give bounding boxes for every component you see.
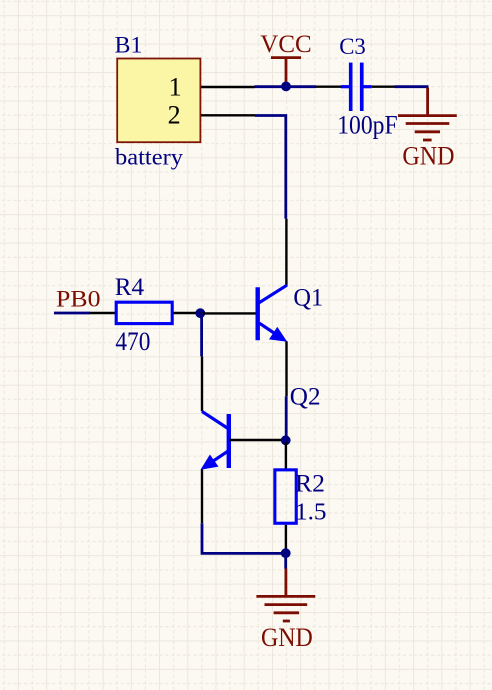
svg-text:470: 470	[115, 327, 150, 356]
wire pin2 down to Q1 collector	[255, 116, 286, 219]
resistor R4	[116, 302, 172, 323]
transistor Q1 emitter pin	[285, 341, 287, 396]
capacitor C3 left pin	[316, 85, 343, 87]
svg-text:R2: R2	[295, 469, 325, 497]
svg-text:1: 1	[169, 72, 182, 102]
svg-text:PB0: PB0	[56, 287, 101, 312]
transistor Q1	[258, 285, 288, 342]
battery pin 1	[201, 86, 255, 88]
capacitor C3	[341, 63, 372, 111]
wire Q2 emitter to bottom junction	[202, 523, 286, 553]
ground GND top right	[398, 88, 457, 141]
resistor R4 left pin	[90, 312, 117, 314]
svg-text:GND: GND	[261, 622, 313, 652]
svg-text:R4: R4	[115, 273, 145, 301]
ground GND bottom	[256, 569, 315, 622]
svg-text:VCC: VCC	[260, 30, 311, 58]
svg-text:Q1: Q1	[293, 284, 323, 311]
battery B1 body	[117, 59, 200, 143]
resistor R4 right pin	[174, 312, 201, 314]
wire junction to GND stub	[284, 553, 287, 568]
resistor R2	[275, 470, 296, 523]
svg-text:GND: GND	[402, 141, 454, 171]
svg-text:B1: B1	[115, 32, 143, 58]
transistor Q2	[201, 411, 229, 469]
transistor Q1 base pin	[200, 312, 256, 314]
resistor R2 bottom pin	[285, 525, 287, 554]
battery pin 2	[201, 114, 255, 116]
svg-text:Q2: Q2	[290, 384, 321, 411]
node junction at Q2 base / R2	[281, 435, 291, 445]
resistor R2 top pin	[285, 442, 287, 469]
VCC power port	[271, 58, 301, 84]
capacitor C3 right pin	[372, 85, 395, 87]
transistor Q1 collector pin	[285, 219, 287, 286]
node junction at VCC	[281, 82, 291, 92]
node junction at R4 / Q1 base	[195, 308, 205, 318]
wire PB0 stub	[54, 312, 90, 315]
transistor Q2 base pin	[229, 439, 286, 441]
svg-text:1.5: 1.5	[295, 498, 327, 525]
transistor Q2 emitter pin	[201, 469, 203, 523]
wire R4 junction down to Q2 collector	[200, 313, 203, 356]
svg-text:battery: battery	[115, 144, 183, 170]
wire Q1 emitter to Q2 base junction	[285, 396, 288, 440]
node junction at bottom	[281, 548, 291, 558]
wire C3 to GND	[395, 85, 429, 88]
svg-text:100pF: 100pF	[337, 111, 397, 140]
transistor Q2 collector pin	[201, 356, 203, 411]
svg-text:C3: C3	[339, 34, 366, 60]
wire pin1 to VCC junction	[255, 85, 317, 88]
svg-text:2: 2	[168, 100, 181, 129]
